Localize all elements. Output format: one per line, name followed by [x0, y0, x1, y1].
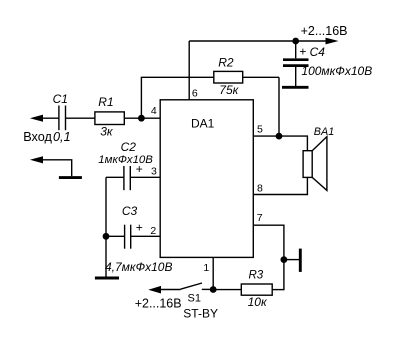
- svg-text:R3: R3: [249, 269, 264, 281]
- svg-text:BA1: BA1: [314, 126, 334, 138]
- svg-text:3к: 3к: [100, 125, 114, 139]
- svg-text:C1: C1: [53, 92, 68, 106]
- svg-text:+: +: [136, 221, 143, 235]
- svg-text:2: 2: [150, 225, 156, 237]
- svg-text:C2: C2: [121, 140, 137, 154]
- svg-text:1мкФх10В: 1мкФх10В: [98, 154, 153, 166]
- svg-text:100мкФх10В: 100мкФх10В: [301, 64, 372, 78]
- svg-text:+2...16В: +2...16В: [301, 24, 348, 38]
- svg-text:4,7мкФх10В: 4,7мкФх10В: [105, 260, 172, 274]
- svg-text:DA1: DA1: [191, 116, 215, 130]
- svg-text:R2: R2: [218, 55, 234, 69]
- svg-text:+: +: [299, 45, 306, 59]
- svg-text:10к: 10к: [248, 295, 268, 309]
- svg-text:S1: S1: [188, 292, 201, 304]
- svg-text:5: 5: [257, 123, 263, 135]
- svg-text:Вход: Вход: [23, 130, 52, 144]
- svg-text:7: 7: [257, 212, 263, 224]
- svg-text:C4: C4: [310, 45, 326, 59]
- svg-text:75к: 75к: [219, 83, 239, 97]
- svg-text:3: 3: [151, 166, 157, 178]
- svg-text:C3: C3: [122, 204, 138, 218]
- svg-text:+: +: [136, 162, 143, 176]
- svg-text:ST-BY: ST-BY: [183, 307, 218, 321]
- svg-text:+2...16В: +2...16В: [135, 297, 182, 311]
- svg-text:0,1: 0,1: [53, 130, 71, 144]
- svg-text:4: 4: [151, 105, 157, 117]
- svg-text:R1: R1: [98, 95, 113, 109]
- svg-text:1: 1: [203, 262, 209, 274]
- svg-text:6: 6: [192, 87, 198, 99]
- svg-text:8: 8: [257, 182, 263, 194]
